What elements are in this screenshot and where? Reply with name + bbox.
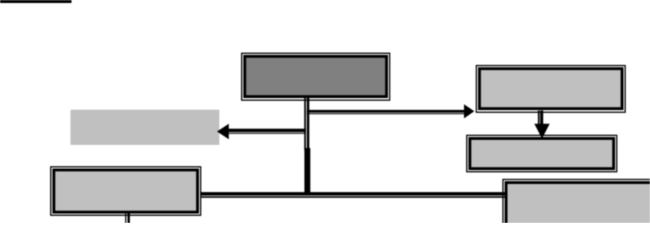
- bottom-left light box outer outline: [51, 167, 201, 215]
- wire: vertical connector from right upper box to right middle box (thin left line): [538, 111, 540, 125]
- right upper light box inner thick border and fill: [479, 69, 622, 109]
- arrowhead into right middle box: [534, 124, 549, 139]
- dark gray process box (top center) outer outline: [242, 53, 390, 100]
- top-left black bar: [0, 0, 72, 3]
- bottom-left light box inner thick border and fill: [54, 170, 198, 212]
- arrowhead into right upper box: [464, 104, 474, 118]
- wire: stem below bottom-left box (thin left line): [125, 213, 126, 223]
- wire: vertical connector from right upper box to right middle box (thick right line): [540, 111, 543, 125]
- right middle light box inner thick border and fill: [470, 138, 614, 168]
- main vertical connector thin left line (from dark box down): [304, 97, 306, 150]
- wire: horizontal branch to left gray rectangle (thin lower line): [229, 133, 306, 134]
- arrowhead into left gray rectangle: [217, 124, 229, 139]
- left borderless gray rectangle: [71, 110, 220, 145]
- bottom-right light box (clipped at canvas edge) outer outline: [503, 179, 650, 229]
- bottom-right light box inner thick border and fill: [506, 183, 650, 227]
- wire: stem below bottom-left box (thick right line): [128, 213, 130, 223]
- main vertical connector thick right line: [307, 97, 310, 150]
- right middle light box outer outline: [467, 135, 617, 171]
- wire: horizontal branch to right upper box (thin lower line): [307, 113, 464, 114]
- wire: horizontal branch to right upper box (thick line): [307, 110, 464, 113]
- dark gray process box inner thick border and fill: [245, 56, 387, 96]
- right upper light box outer outline: [476, 66, 625, 113]
- wire: bottom horizontal connector thin lower line: [201, 196, 506, 198]
- main vertical connector merged lower part down to bottom line: [304, 148, 310, 194]
- wire: bottom horizontal connector thick line: [201, 192, 506, 195]
- wire: horizontal branch to left gray rectangle (thick line): [229, 129, 306, 132]
